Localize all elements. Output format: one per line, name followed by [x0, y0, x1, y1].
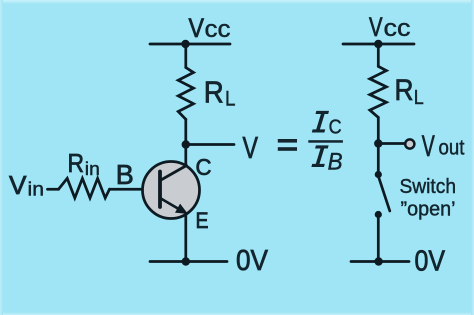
- svg-text:V: V: [9, 170, 27, 200]
- svg-text:V: V: [369, 12, 383, 42]
- svg-text:cc: cc: [205, 16, 231, 43]
- svg-text:0V: 0V: [236, 245, 269, 277]
- svg-text:R: R: [395, 74, 414, 107]
- svg-text:V: V: [243, 130, 259, 165]
- svg-text:cc: cc: [384, 15, 411, 42]
- svg-text:Switch: Switch: [400, 175, 457, 198]
- svg-text:V: V: [189, 13, 205, 43]
- svg-text:L: L: [414, 86, 424, 109]
- svg-text:B: B: [116, 159, 134, 190]
- svg-text:L: L: [225, 88, 236, 111]
- svg-text:in: in: [85, 159, 100, 179]
- svg-text:0V: 0V: [415, 246, 446, 278]
- svg-text:C: C: [329, 117, 342, 139]
- svg-text:V: V: [422, 130, 435, 163]
- svg-text:E: E: [196, 208, 209, 233]
- svg-text:out: out: [439, 137, 465, 160]
- svg-text:B: B: [328, 148, 343, 175]
- svg-text:R: R: [68, 148, 85, 178]
- svg-text:”open’: ”open’: [401, 198, 456, 221]
- svg-text:in: in: [28, 180, 45, 201]
- svg-text:R: R: [204, 75, 224, 110]
- svg-text:C: C: [196, 154, 212, 180]
